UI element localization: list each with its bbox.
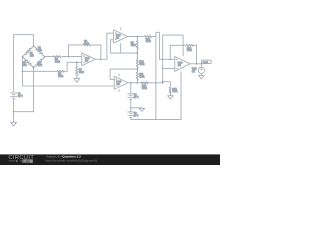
bridge resistor R2 (top-right edge) <box>34 46 45 57</box>
svg-text:100k: 100k <box>172 90 178 93</box>
wire feedback to OA1 output <box>91 45 101 59</box>
svg-text:LAB: LAB <box>23 159 30 163</box>
wire V3 to OA4 bottom power stub <box>131 71 181 119</box>
supply rail <box>155 32 157 119</box>
svg-text:100k: 100k <box>58 75 64 78</box>
node supply tap on OA3 output <box>130 82 132 84</box>
svg-text:1M: 1M <box>116 83 119 86</box>
wire gain node to OA3 inverting input <box>110 69 137 79</box>
svg-text:100k: 100k <box>55 60 61 63</box>
supply chain from OA3 output node <box>130 83 132 94</box>
wire to R6 <box>22 70 57 72</box>
node feedback tap <box>68 56 70 58</box>
wire bridge left down <box>21 57 23 86</box>
wire OA3 output <box>128 82 163 84</box>
svg-text:100k: 100k <box>79 71 85 74</box>
voltage source V3 <box>127 112 134 120</box>
bridge resistor R1 (top-left edge) <box>22 46 33 57</box>
svg-text:1M: 1M <box>85 59 88 62</box>
positive rail to OA4 power <box>163 35 183 83</box>
wire rail to OA4 non-inverting input <box>163 68 175 70</box>
wire bridge top excitation <box>14 35 34 92</box>
resistor R11 (OA3 feedback, vertical) <box>136 69 138 83</box>
wire bridge left to OA3 non-inverting input <box>22 85 114 87</box>
svg-text:http://circuitlab.com/c6rc3c25: http://circuitlab.com/c6rc3c25dgnmv3d <box>46 158 98 162</box>
voltage source V1 <box>10 93 17 122</box>
resistor R8 (OA1 feedback) <box>83 44 91 46</box>
svg-text:10 V: 10 V <box>18 95 23 98</box>
node OA4 feedback tap <box>169 59 171 61</box>
node R6 tap <box>22 71 24 73</box>
wire midpoint to ground <box>131 107 142 110</box>
footer bar <box>0 154 220 165</box>
resistor R12 (series from OA3 out) <box>141 82 149 84</box>
resistor R15 (to ground) <box>169 87 171 95</box>
ground GND5 <box>139 108 145 111</box>
power stub OA2 top <box>120 27 122 30</box>
wire OA1 feedback up <box>68 45 83 57</box>
power stub OA3 top <box>118 74 120 77</box>
voltage source V2 <box>127 94 134 112</box>
node vout <box>201 63 203 65</box>
ground GND2 <box>74 79 80 83</box>
svg-text:100: 100 <box>23 64 28 67</box>
svg-text:100: 100 <box>38 64 43 67</box>
svg-text:(V): (V) <box>192 70 195 73</box>
voltmeter VM1 <box>198 64 204 76</box>
wire V1 to bridge bottom <box>14 68 34 112</box>
wire OA2 inverting feedback <box>110 40 137 53</box>
op-amp OA3 <box>114 76 128 89</box>
op-amp OA1 <box>82 53 96 66</box>
resistor R14 (OA4 feedback) <box>186 44 194 46</box>
resistor R9 (OA2 feedback, vertical) <box>136 36 138 53</box>
node OA4 feedback join <box>196 63 198 65</box>
svg-text:100k: 100k <box>142 87 148 90</box>
power stub OA3 bottom <box>118 89 120 92</box>
svg-text:15 V: 15 V <box>134 114 139 117</box>
node R11 bottom junction <box>137 82 139 84</box>
node gain B <box>137 68 139 70</box>
svg-text:100k: 100k <box>139 63 145 66</box>
resistor R5 <box>54 56 62 58</box>
ground GND3 <box>199 76 205 79</box>
resistor R6 <box>57 70 65 72</box>
svg-text:15 V: 15 V <box>134 96 139 99</box>
wire feedback to output <box>194 45 197 64</box>
svg-text:vout: vout <box>203 60 208 64</box>
node R8 join <box>100 58 102 60</box>
ground GND4 <box>168 96 174 99</box>
ground GND1 <box>11 122 17 126</box>
node flag vout <box>201 60 211 64</box>
wire bridge right to R5 <box>45 56 54 58</box>
svg-text:1M: 1M <box>116 37 119 40</box>
wire OA1 output to OA2 <box>96 33 114 59</box>
wire R13 jog to OA4 inverting input <box>152 32 175 59</box>
op-amp OA4 <box>175 56 190 71</box>
wire OA2 output with R13 <box>128 35 145 37</box>
wire R5 to OA1 inverting input <box>62 56 82 58</box>
bridge corner nodes <box>33 45 35 47</box>
svg-text:100k: 100k <box>84 42 90 45</box>
svg-text:100: 100 <box>38 49 43 52</box>
op-amp OA2 <box>114 30 128 43</box>
svg-text:100k: 100k <box>187 49 193 52</box>
bridge resistor R3 (bottom-left edge) <box>22 57 33 68</box>
node V1-bottom junction <box>13 111 15 113</box>
svg-text:100: 100 <box>30 54 35 57</box>
node gain A <box>137 52 139 54</box>
power stub OA2 bottom <box>120 43 122 53</box>
resistor R7 (to ground) <box>76 62 78 78</box>
svg-text:100k: 100k <box>139 76 145 79</box>
node supply midpoint <box>130 107 132 109</box>
node R9 top junction <box>137 36 139 38</box>
resistor R10 (gain, vertical) <box>136 53 138 69</box>
wire R6 to OA1 non-inverting input <box>65 62 82 71</box>
wire OA4 output <box>190 63 202 65</box>
resistor R13 <box>145 35 153 37</box>
svg-text:100k: 100k <box>146 40 152 43</box>
svg-text:100k: 100k <box>131 44 137 47</box>
wire OA4 feedback up <box>170 45 186 59</box>
svg-text:1M: 1M <box>178 64 181 67</box>
wire rail to R15 <box>163 82 171 88</box>
node R7 tap <box>76 62 78 64</box>
bridge resistor R4 (bottom-right edge) <box>34 57 45 68</box>
